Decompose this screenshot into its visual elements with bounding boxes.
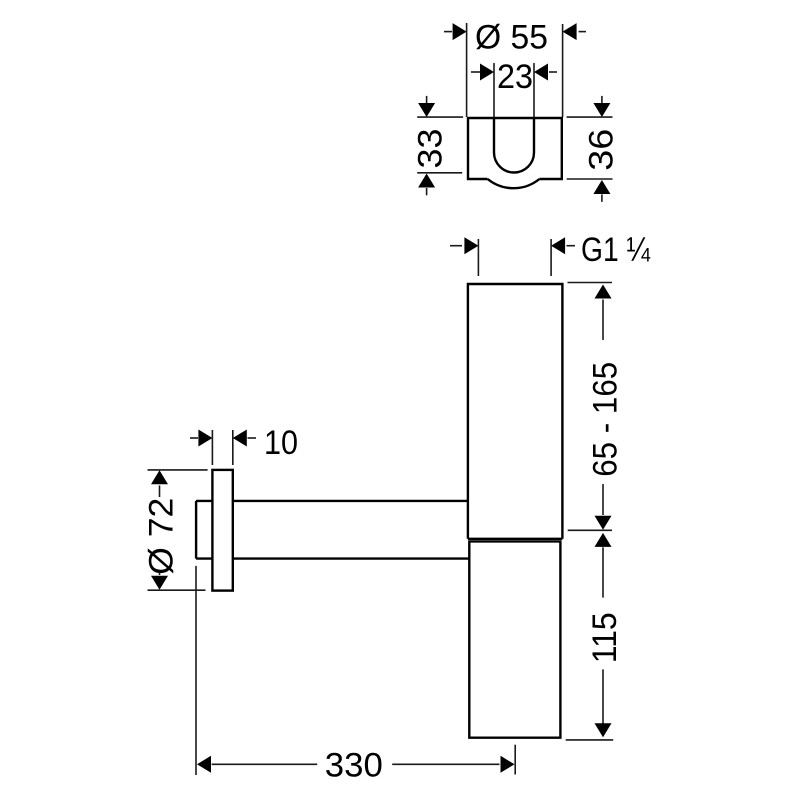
dimension 330 (overall projection) bbox=[196, 566, 515, 775]
svg-text:33: 33 bbox=[412, 129, 450, 169]
svg-text:36: 36 bbox=[583, 129, 621, 171]
svg-text:65 - 165: 65 - 165 bbox=[587, 362, 625, 477]
dimension 115 bbox=[566, 547, 614, 740]
svg-text:10: 10 bbox=[264, 424, 298, 462]
dimension G1 1/4 bbox=[450, 239, 575, 276]
svg-text:23: 23 bbox=[497, 58, 533, 96]
flush mount cup body outline bbox=[468, 118, 562, 188]
pipe bottom edge bbox=[468, 538, 563, 540]
lower trap cup tube bbox=[469, 541, 560, 737]
pipe top edge bbox=[196, 500, 468, 502]
svg-text:G1 ¼: G1 ¼ bbox=[581, 231, 651, 269]
vertical inlet pipe G1 1/4 bbox=[468, 284, 563, 539]
dimension Ø72 (flange diameter) bbox=[148, 470, 208, 590]
cup bottom bulge arc bbox=[488, 179, 540, 188]
svg-text:Ø 55: Ø 55 bbox=[475, 18, 548, 56]
dimension Ø55 bbox=[444, 23, 586, 117]
pipe bottom edge bbox=[196, 557, 468, 559]
cup inner U recess bbox=[494, 118, 534, 173]
dimension 36 (right of cup) bbox=[567, 96, 613, 202]
dimension 10 (flange thickness) bbox=[190, 430, 256, 465]
svg-text:Ø 72: Ø 72 bbox=[143, 498, 181, 575]
horizontal wall pipe bbox=[196, 501, 468, 559]
svg-text:115: 115 bbox=[586, 612, 624, 663]
dimension 65-165 bbox=[568, 283, 613, 531]
dimension 23 bbox=[471, 63, 557, 117]
pipe left end cap bbox=[195, 501, 197, 559]
dimension 33 (left of cup) bbox=[417, 96, 463, 195]
wall flange rosette bbox=[212, 470, 232, 591]
svg-text:330: 330 bbox=[325, 747, 383, 785]
